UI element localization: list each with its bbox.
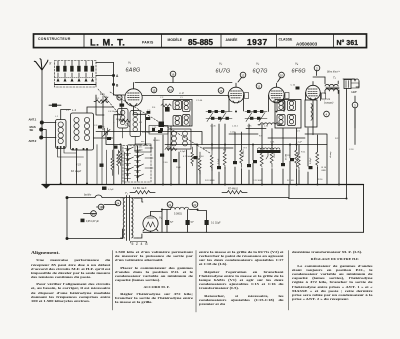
svg-text:ANT.2: ANT.2 (29, 139, 37, 143)
wafer switch S1 dashed enclosure (55, 61, 97, 88)
trimmer capacitor C4 (120, 104, 125, 107)
capacitor C21 (253, 160, 257, 163)
svg-text:6Q7G: 6Q7G (253, 69, 268, 75)
node A (112, 74, 115, 77)
svg-text:C.4 50μμF: C.4 50μμF (108, 111, 119, 113)
wire osc coils to bus (123, 128, 142, 145)
callout 11 (256, 83, 262, 89)
svg-text:22: 22 (193, 203, 197, 207)
bottom return line (143, 231, 364, 233)
svg-text:H.P: H.P (352, 90, 357, 94)
svg-text:14: 14 (169, 88, 173, 92)
svg-text:C.40: C.40 (163, 162, 168, 164)
variable capacitor CV2 (99, 124, 110, 137)
svg-text:R.2: R.2 (125, 125, 129, 127)
svg-text:L. M. T.: L. M. T. (90, 37, 125, 47)
svg-text:50.000Ω: 50.000Ω (243, 149, 245, 157)
resistor R15 horizontal (135, 191, 150, 194)
svg-text:osc.: osc. (141, 141, 145, 143)
svg-text:0,1 μF: 0,1 μF (296, 142, 303, 144)
svg-text:L.2: L.2 (66, 110, 70, 112)
wire top rail from V1 (135, 82, 232, 84)
svg-text:MODÈLE: MODÈLE (168, 37, 183, 42)
svg-text:L.12.1: L.12.1 (232, 126, 239, 128)
svg-text:R 14: R 14 (322, 167, 327, 169)
power transformer T1 (121, 191, 138, 241)
extra junction dots (60, 111, 348, 211)
svg-text:0,1 Ω1μF: 0,1 Ω1μF (211, 223, 221, 225)
mains loop left (66, 196, 69, 199)
svg-text:C 23: C 23 (285, 155, 290, 157)
resistor R20 vertical (111, 150, 114, 176)
output transformer T2 (325, 76, 339, 94)
svg-text:6U7G: 6U7G (216, 69, 231, 75)
svg-text:C.24: C.24 (349, 149, 354, 151)
svg-text:T₂: T₂ (333, 76, 337, 80)
svg-text:C.13: C.13 (167, 146, 172, 148)
terminal ANT1 (40, 121, 44, 125)
value labels midsection (55, 97, 354, 182)
header table frame (34, 34, 367, 48)
callout 3 (352, 102, 358, 108)
svg-text:V₄: V₄ (295, 62, 299, 66)
svg-text:16: 16 (171, 72, 175, 76)
callout 14 (168, 87, 174, 93)
svg-text:63. maμF: 63. maμF (71, 170, 82, 173)
svg-text:6A8G: 6A8G (126, 68, 141, 74)
svg-text:CONSTRUCTEUR: CONSTRUCTEUR (38, 37, 71, 41)
fuse F1 (67, 185, 347, 199)
svg-text:0,05μF: 0,05μF (310, 157, 312, 164)
svg-text:C.11: C.11 (152, 127, 157, 129)
chassis bus (42, 184, 364, 186)
svg-text:C 21: C 21 (270, 142, 275, 144)
svg-text:13: 13 (219, 89, 223, 93)
wire L2 leads to bus (61, 149, 87, 184)
wire switch box to node A (96, 63, 114, 76)
capacitor C32 below bus (102, 187, 107, 190)
resistor R2 vertical (198, 152, 201, 174)
value labels right section (243, 149, 327, 172)
wire V1 anode down (134, 106, 146, 144)
volume control coil (258, 123, 282, 125)
svg-text:5.000Ω: 5.000Ω (174, 213, 182, 216)
svg-text:L.1: L.1 (55, 116, 59, 118)
IF transformer L6 box (275, 100, 301, 129)
svg-text:4.7Ω bleu: 4.7Ω bleu (183, 156, 193, 158)
capacitor C27 filter (186, 220, 190, 225)
tube V1 6A8G (125, 61, 142, 107)
wire grid return (197, 93, 321, 185)
svg-text:C 2: C 2 (160, 97, 164, 99)
callout 24 (115, 200, 121, 206)
node B (112, 83, 115, 86)
callout 22 (192, 202, 198, 208)
svg-text:C.3: C.3 (94, 125, 98, 127)
capacitor C8 (158, 130, 162, 133)
capacitor C28 (205, 220, 209, 225)
wire B+ rail right (339, 89, 347, 199)
resistor R3 horizontal (119, 119, 130, 122)
svg-text:L 5: L 5 (180, 97, 184, 99)
wafer switch S2 (123, 146, 153, 183)
capacitor C23 (290, 158, 294, 161)
svg-text:R.17: R.17 (335, 138, 340, 140)
wire links midsection (200, 77, 355, 185)
gang linkage dashed line 2 (110, 92, 210, 153)
resistor R11 vertical (260, 153, 263, 166)
svg-text:R 8: R 8 (244, 148, 248, 150)
oscillator coil L9 box (130, 111, 141, 137)
svg-text:C 5 46: C 5 46 (196, 100, 203, 102)
svg-text:11: 11 (257, 84, 260, 88)
column rule 2 (195, 251, 197, 313)
switch S1 trimmer elements (55, 61, 97, 85)
svg-text:R.3 1MΩ: R.3 1MΩ (142, 132, 151, 134)
svg-text:0,1μF: 0,1μF (180, 151, 186, 153)
resistor R7 vertical (295, 150, 298, 167)
variable capacitor CV1 (100, 92, 108, 104)
padder box (135, 144, 151, 152)
svg-text:4: 4 (326, 112, 328, 116)
svg-text:C 9: C 9 (147, 110, 151, 112)
resistor R16 horizontal (227, 191, 242, 194)
loudspeaker H.P coil (343, 79, 359, 94)
coil box terminals (57, 146, 89, 150)
component rect (149, 126, 168, 135)
svg-text:0,1μF: 0,1μF (218, 158, 220, 164)
capacitor C30 (100, 164, 104, 167)
wire screen bus (165, 144, 327, 146)
trimmer cluster C13-C14 (245, 110, 267, 122)
IF transformer L5 box (163, 100, 192, 127)
svg-text:R.T 4Ω: R.T 4Ω (287, 180, 294, 182)
capacitor C26 filter (165, 220, 169, 225)
tube V2 6U7G (216, 62, 244, 104)
svg-text:X: X (48, 62, 52, 66)
right edge of supply loop (363, 185, 365, 233)
svg-text:68Ω: 68Ω (322, 170, 326, 172)
coupling coil box (305, 100, 317, 127)
svg-text:SE: SE (30, 128, 34, 132)
oscillator coil L4 box (168, 129, 191, 149)
svg-text:12: 12 (241, 73, 245, 77)
capacitor C16 (281, 163, 285, 166)
wire verticals left-mid (97, 132, 125, 185)
svg-text:C 44: C 44 (199, 156, 204, 158)
svg-text:21: 21 (168, 203, 172, 207)
resistor R5 vertical (240, 150, 243, 167)
svg-text:T₁: T₁ (125, 191, 128, 195)
potentiometer P1 (257, 148, 281, 159)
svg-text:0,05 4,07 μF: 0,05 4,07 μF (86, 221, 100, 223)
callout 16 (170, 71, 176, 77)
svg-text:2MΩ: 2MΩ (116, 119, 121, 121)
svg-text:CLASSE: CLASSE (279, 37, 293, 41)
ground chassis symbol (45, 182, 47, 184)
callout 2 (314, 65, 320, 71)
wires rectifier and caps (151, 210, 207, 233)
svg-text:fusible: fusible (84, 194, 92, 197)
svg-text:R 9: R 9 (259, 136, 263, 138)
wire grid cap C4 link (114, 100, 122, 123)
callout 46 (117, 95, 122, 100)
svg-text:A0506003: A0506003 (296, 41, 318, 46)
cathode resistor box V3 (285, 93, 289, 99)
svg-text:C.4h: C.4h (247, 126, 252, 128)
svg-text:A: A (116, 74, 119, 78)
capacitor C9 (146, 117, 150, 120)
wire U-link under coils (58, 147, 84, 157)
wire left column to bus (155, 126, 187, 185)
svg-text:V₂: V₂ (219, 62, 223, 66)
resistor R12 vertical (210, 150, 213, 171)
svg-text:2: 2 (316, 66, 318, 70)
svg-text:0,1μF: 0,1μF (108, 189, 114, 191)
svg-text:C5.46: C5.46 (210, 126, 216, 128)
wire speaker return (354, 96, 356, 128)
svg-text:0,1 5Ω. ma X: 0,1 5Ω. ma X (133, 188, 147, 190)
svg-text:L 6: L 6 (297, 131, 301, 133)
capacitor C14b (173, 159, 177, 162)
coil L2 box (71, 113, 94, 150)
capacitor C13b (160, 154, 164, 157)
wires component rows to chassis (219, 124, 318, 166)
capacitor C31 (114, 146, 118, 149)
svg-text:85-885: 85-885 (188, 38, 213, 47)
svg-text:filtre bleu™: filtre bleu™ (327, 71, 340, 74)
resistor R10 vertical (223, 152, 226, 168)
wire terminals to coils (41, 123, 56, 183)
resistor R21 vertical (117, 150, 120, 174)
tube V4 6F6G (292, 62, 321, 100)
svg-text:25μF: 25μF (176, 167, 182, 169)
svg-text:8μF: 8μF (191, 222, 195, 224)
svg-text:L.4: L.4 (72, 108, 76, 112)
wires transformer taps (121, 198, 143, 238)
capacitor C19 (233, 161, 237, 164)
svg-text:R 4: R 4 (152, 107, 156, 109)
antenna (34, 59, 48, 123)
callout 10 (279, 72, 285, 78)
svg-text:1 MΩ: 1 MΩ (274, 153, 276, 158)
svg-text:50.000: 50.000 (153, 140, 160, 142)
svg-text:RT 4/W.Ω: RT 4/W.Ω (228, 189, 238, 191)
padder capacitor C6 (52, 104, 57, 107)
callout 21 (167, 202, 173, 208)
svg-text:L.3: L.3 (180, 91, 184, 95)
svg-text:C.12 40Ω: C.12 40Ω (253, 180, 262, 182)
column rule 3 (287, 251, 289, 311)
wire vertical A-B rail (113, 63, 115, 185)
svg-text:R 16: R 16 (318, 179, 323, 181)
terminal MASSE (39, 128, 43, 132)
wire B to V1 (114, 94, 126, 96)
wire avc bus (152, 132, 202, 145)
callout 4 (324, 111, 330, 117)
svg-text:V₅: V₅ (159, 216, 163, 220)
capacitor C20 (194, 156, 198, 159)
filter choke L7 (162, 207, 198, 215)
capacitor C22 (296, 87, 300, 90)
label 5Z4G (131, 242, 149, 246)
resistor R8 vertical (316, 152, 319, 168)
cathode resistor box V2 (245, 93, 249, 99)
callout 13 (218, 88, 224, 94)
callout 12 (240, 72, 246, 78)
resistor R18 vertical (119, 146, 122, 166)
svg-text:V₁: V₁ (128, 61, 131, 65)
tube V3 6Q7G (253, 62, 285, 104)
svg-text:4.33: 4.33 (76, 164, 81, 167)
terminal ANT2 (39, 136, 43, 140)
svg-text:ANT.1: ANT.1 (29, 118, 37, 122)
svg-text:B: B (116, 84, 119, 88)
svg-text:R.1: R.1 (96, 98, 100, 100)
trimmer cluster C10-C12 (206, 110, 232, 122)
callout 16 stem (172, 77, 174, 83)
gang linkage dashed line (98, 89, 130, 127)
capacitor C15 (247, 164, 251, 167)
callout 12 stem (238, 78, 242, 83)
callout 25 (98, 204, 104, 210)
svg-text:C 20: C 20 (230, 132, 235, 134)
svg-text:6F6G: 6F6G (292, 69, 306, 75)
capacitor C7 (147, 111, 151, 114)
cathode resistor box V4 (322, 93, 326, 99)
svg-text:champ: champ (330, 151, 332, 158)
svg-text:10: 10 (280, 73, 284, 77)
antenna coil L1 box (56, 120, 67, 149)
callout 2 stem (316, 71, 318, 76)
svg-text:(casque): (casque) (324, 102, 333, 105)
capacitor C18 (217, 166, 221, 169)
capacitor C41 (107, 137, 111, 140)
svg-text:V₃: V₃ (256, 62, 260, 66)
capacitor C10 (98, 126, 102, 129)
resistor R13 horizontal (165, 148, 177, 151)
svg-text:1937: 1937 (247, 37, 268, 47)
svg-text:0,1: 0,1 (139, 122, 143, 124)
capacitor C17 (309, 166, 313, 169)
svg-text:N° 361: N° 361 (337, 39, 359, 47)
header labels (38, 37, 358, 48)
wire screen rail from V1 (142, 95, 229, 97)
svg-text:15: 15 (152, 88, 156, 92)
resistor R19 vertical (191, 147, 194, 166)
capacitor C25 mains (81, 219, 85, 223)
rectifier tube V5 (143, 212, 163, 232)
heater wires (84, 205, 118, 214)
svg-text:3: 3 (354, 103, 356, 107)
callout 26 (91, 211, 97, 217)
svg-text:5 Z 4 G: 5 Z 4 G (132, 242, 149, 246)
svg-text:8μF: 8μF (170, 222, 174, 224)
svg-text:R.13 4MΩ: R.13 4MΩ (205, 180, 215, 182)
resistor R1 horizontal (96, 100, 108, 103)
callout 15 (151, 87, 157, 93)
wire left midsection links (61, 95, 152, 145)
resistor R9 vertical (297, 154, 300, 169)
column rule 1 (111, 251, 113, 311)
svg-text:PARIS: PARIS (142, 41, 154, 45)
resistor R6 vertical (270, 150, 273, 167)
svg-text:ANNÉE: ANNÉE (226, 37, 239, 42)
svg-text:R 11: R 11 (301, 152, 306, 154)
svg-text:C 22: C 22 (291, 85, 296, 87)
callout 10 stem (278, 78, 281, 83)
oscillator coil L8 box (118, 109, 129, 129)
svg-text:L.3h: L.3h (264, 126, 269, 128)
svg-text:R 7: R 7 (223, 150, 227, 152)
